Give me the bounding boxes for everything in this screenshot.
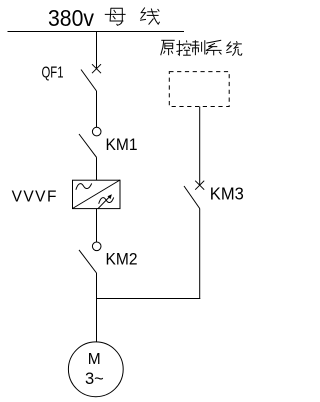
inverter U1 AC input sine [76,183,92,189]
label 线 (glyph strokes) [140,8,160,25]
svg-text:KM2: KM2 [106,250,138,269]
wire KM1 to inverter [96,157,98,180]
wire control box to KM3 [199,107,201,186]
control system dashed box [169,72,229,107]
busbar 380v 母线 [8,31,185,33]
wire KM2 to motor [96,273,98,342]
contactor KM2 blade [79,250,97,273]
contactor KM1 blade [79,134,97,157]
label 统 (glyph strokes) [226,41,242,56]
inverter U1 diagonal [73,180,121,209]
label 制 (glyph strokes) [192,40,205,55]
wire KM3 to junction [199,209,201,300]
wire busbar to QF1 [96,31,98,69]
label 控 (glyph strokes) [176,40,190,55]
motor M circle [68,342,123,397]
svg-text:M: M [88,351,101,368]
svg-text:QF1: QF1 [42,65,64,82]
inverter U1 output arrow [98,196,111,209]
label 母 (glyph strokes) [105,8,126,25]
breaker QF1 cross mark [92,64,101,73]
breaker QF1 blade [81,70,97,92]
inverter U1 variable frequency output sine [99,197,114,203]
inverter U1 box [73,180,121,208]
svg-text:3~: 3~ [85,370,104,388]
label 原 (glyph strokes) [161,40,175,55]
svg-text:380v: 380v [48,5,94,31]
wire QF1 to KM1 [96,91,98,127]
svg-text:KM1: KM1 [106,135,138,154]
svg-text:KM3: KM3 [210,183,244,203]
wire inverter to KM2 [96,209,98,243]
contactor KM3 blade [184,186,200,209]
contactor KM3 cross mark [195,181,204,190]
label 系 (glyph strokes) [206,40,222,55]
contactor KM2 contact circle [92,242,101,251]
svg-text:VVVF: VVVF [12,189,58,206]
wire junction horizontal [96,298,200,300]
contactor KM1 contact circle [92,127,101,136]
